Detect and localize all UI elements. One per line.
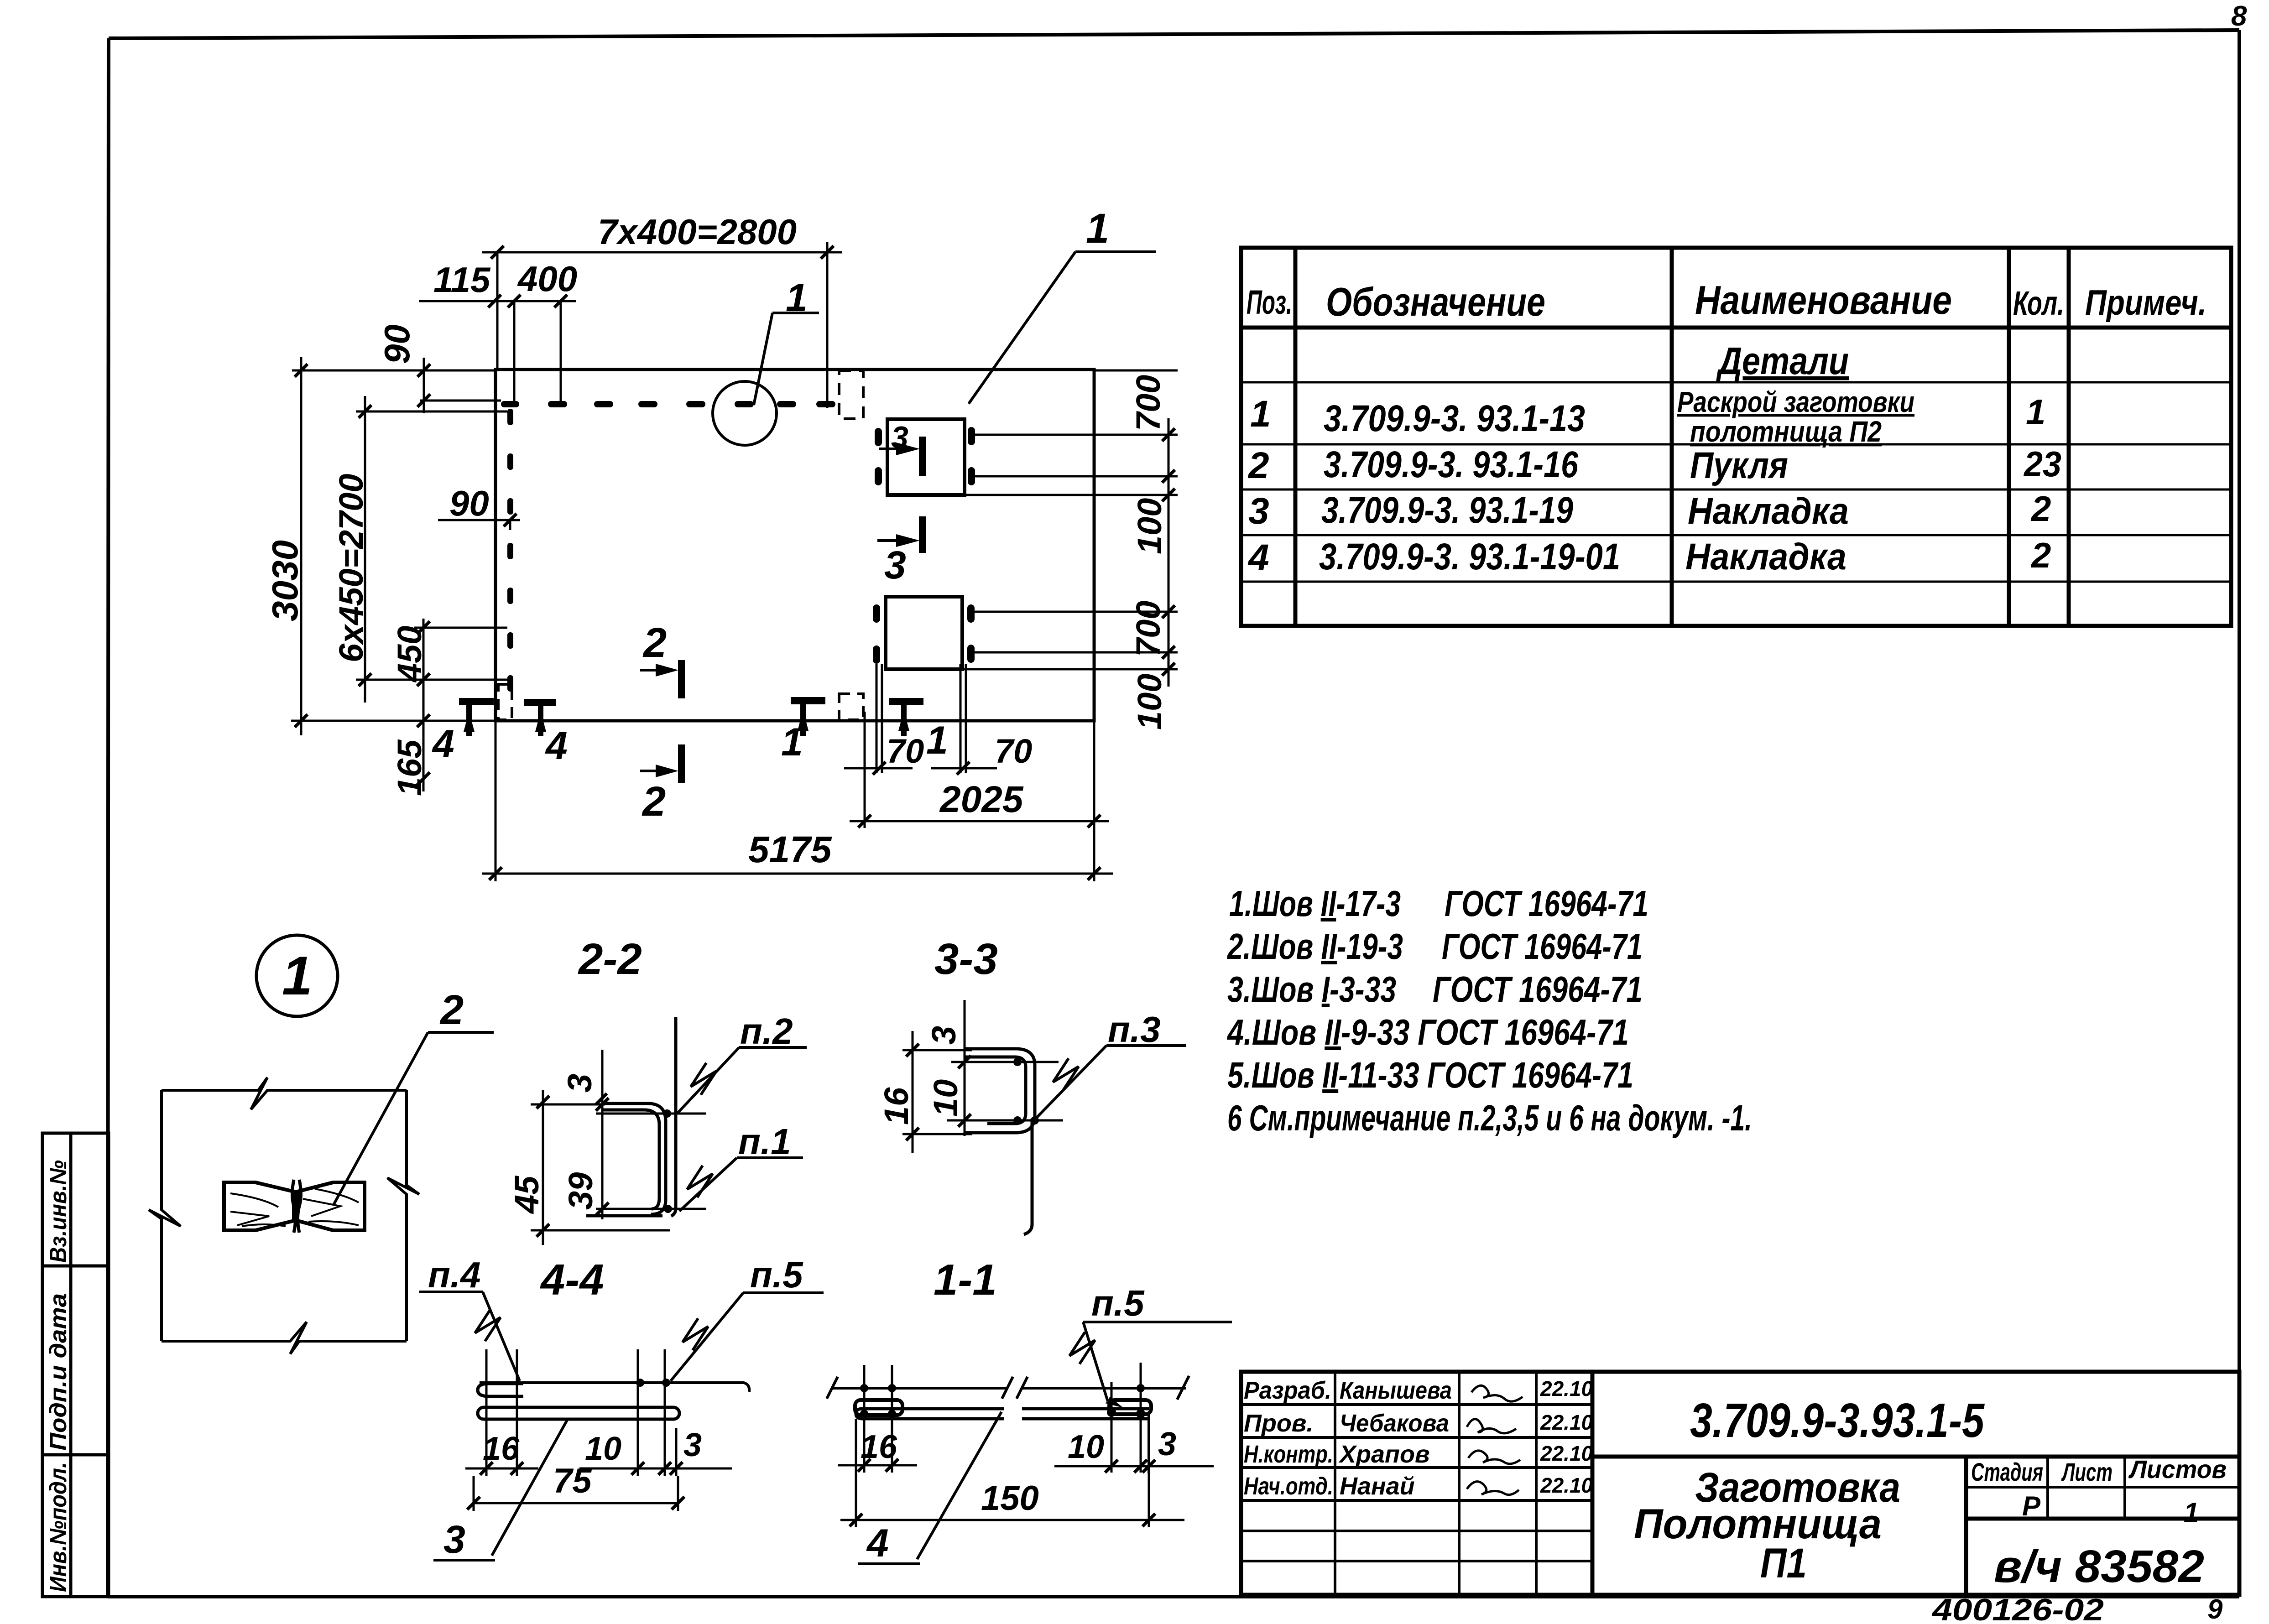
svg-text:Поз.: Поз. [1247, 283, 1292, 321]
svg-text:Инв.№подл.: Инв.№подл. [45, 1462, 72, 1592]
svg-text:39: 39 [562, 1172, 600, 1210]
svg-text:5.Шов II-11-33 ГОСТ 16964-7: 5.Шов II-11-33 ГОСТ 16964-71 [1227, 1055, 1633, 1095]
svg-text:23: 23 [2023, 444, 2061, 484]
svg-text:Пров.: Пров. [1244, 1410, 1313, 1437]
section 3 mark inside upper rect [879, 437, 926, 476]
bent pukla hairpin [586, 1103, 666, 1216]
svg-text:Пукля: Пукля [1690, 445, 1788, 486]
signatures squiggles [1467, 1385, 1523, 1494]
svg-text:4-4: 4-4 [540, 1255, 604, 1304]
svg-text:2: 2 [642, 619, 667, 666]
svg-text:3: 3 [1158, 1426, 1176, 1463]
svg-text:400126-02: 400126-02 [1931, 1593, 2104, 1624]
dashed cut-out box top right [839, 370, 863, 419]
svg-text:1: 1 [1086, 205, 1109, 252]
svg-text:3.709.9-3. 93.1-19: 3.709.9-3. 93.1-19 [1321, 489, 1573, 531]
svg-text:Детали: Детали [1716, 339, 1849, 382]
plate edge vertical line [671, 1017, 676, 1216]
dim slash ticks [295, 246, 1175, 880]
svg-text:1: 1 [2184, 1497, 2199, 1528]
svg-text:п.4: п.4 [428, 1254, 481, 1295]
weld T-mark 4 (second) [524, 699, 556, 736]
svg-text:3.709.9-3.93.1-5: 3.709.9-3.93.1-5 [1690, 1394, 1985, 1447]
1-1 top edge line with breaks [831, 1387, 1186, 1390]
right side dim extensions [1094, 370, 1178, 372]
svg-text:9: 9 [2207, 1594, 2223, 1624]
svg-text:22.10: 22.10 [1540, 1411, 1593, 1434]
svg-text:10: 10 [1068, 1429, 1104, 1465]
svg-text:400: 400 [517, 259, 577, 299]
svg-text:700: 700 [1129, 375, 1167, 431]
svg-text:22.10: 22.10 [1540, 1442, 1593, 1465]
svg-text:1: 1 [2026, 392, 2045, 432]
svg-text:1: 1 [786, 276, 808, 320]
svg-text:в/ч 83582: в/ч 83582 [1994, 1541, 2204, 1592]
dashed cut-out box bottom left [498, 684, 512, 720]
svg-text:7x400=2800: 7x400=2800 [598, 212, 797, 252]
svg-text:Нанай: Нанай [1340, 1473, 1415, 1500]
svg-text:ГОСТ 16964-71: ГОСТ 16964-71 [1445, 883, 1648, 924]
dim 6x450=2700 vertical [364, 396, 366, 703]
svg-text:2: 2 [439, 987, 464, 1033]
svg-text:70: 70 [887, 732, 924, 770]
detail square with break edges [149, 1077, 419, 1354]
90 top extension lines [390, 370, 496, 372]
4-4 lower plate double bar [478, 1407, 679, 1419]
svg-text:22.10: 22.10 [1540, 1377, 1593, 1400]
svg-text:1: 1 [282, 945, 313, 1006]
dim 115 / 400 line [419, 300, 576, 302]
svg-text:115: 115 [433, 260, 491, 300]
svg-text:Примеч.: Примеч. [2085, 282, 2206, 323]
dashed cut-out box bottom middle [839, 694, 863, 720]
svg-text:Р: Р [2022, 1491, 2041, 1521]
dim 450 / 165 vertical [423, 619, 425, 791]
svg-text:Вз.инв.№: Вз.инв.№ [45, 1160, 72, 1263]
svg-text:3.709.9-3. 93.1-19-01: 3.709.9-3. 93.1-19-01 [1319, 536, 1620, 578]
svg-text:П1: П1 [1760, 1540, 1807, 1587]
svg-text:п.1: п.1 [738, 1121, 791, 1162]
svg-text:Листов: Листов [2128, 1455, 2227, 1483]
svg-text:4: 4 [1247, 537, 1269, 578]
section 2 mark upper [640, 669, 674, 671]
dim 3030 vertical [300, 357, 303, 735]
callout п.1 [679, 1158, 803, 1211]
svg-text:2: 2 [642, 778, 666, 825]
position leader 4 [858, 1412, 1001, 1564]
dims of 1-1 [838, 1363, 1214, 1527]
svg-text:4: 4 [432, 722, 454, 766]
svg-text:1: 1 [781, 720, 803, 764]
svg-text:4: 4 [545, 724, 568, 768]
dim 5175 [482, 873, 1113, 875]
svg-text:10: 10 [927, 1079, 965, 1117]
callout п.3 [1036, 1046, 1186, 1119]
svg-text:3: 3 [884, 543, 906, 587]
dims of 3-3 [902, 1000, 1063, 1153]
callout п.2 [677, 1047, 807, 1114]
svg-text:Обозначение: Обозначение [1326, 279, 1545, 324]
lower inner rect (nakladka) [886, 597, 962, 669]
weld T-mark 1 (first) [791, 697, 825, 736]
svg-text:3-3: 3-3 [934, 935, 998, 984]
svg-text:45: 45 [508, 1175, 546, 1214]
svg-text:450: 450 [391, 626, 428, 683]
svg-text:Накладка: Накладка [1688, 490, 1849, 532]
section 3 mark standalone [877, 516, 926, 553]
weld T-mark 1 (second) [889, 698, 923, 736]
svg-text:700: 700 [1129, 601, 1167, 657]
svg-text:1: 1 [1250, 393, 1271, 435]
svg-text:3: 3 [443, 1518, 465, 1562]
svg-text:2025: 2025 [939, 779, 1024, 820]
svg-text:5175: 5175 [748, 829, 832, 870]
svg-text:16: 16 [483, 1431, 520, 1467]
dims of 2-2 [531, 1050, 706, 1245]
svg-text:3: 3 [925, 1026, 963, 1045]
dim 7x400=2800 line [482, 251, 842, 254]
svg-text:2: 2 [2030, 489, 2051, 529]
weld T-mark 4 (first) [459, 698, 494, 736]
left column of pukly dashes [507, 409, 513, 692]
1-1 plate double line left segment [856, 1409, 1149, 1419]
svg-text:Чебакова: Чебакова [1340, 1410, 1449, 1437]
svg-text:Подп.и дата: Подп.и дата [45, 1293, 72, 1451]
svg-text:90: 90 [377, 324, 417, 364]
svg-text:п.3: п.3 [1108, 1009, 1161, 1050]
leader of callout 1 (sheet item) [969, 252, 1156, 404]
svg-text:165: 165 [391, 739, 428, 796]
4-4 top plate edge line [480, 1383, 749, 1392]
svg-text:3: 3 [891, 420, 908, 455]
svg-text:4.Шов II-9-33 ГОСТ 16964-71: 4.Шов II-9-33 ГОСТ 16964-71 [1226, 1012, 1629, 1052]
svg-text:Н.контр.: Н.контр. [1244, 1441, 1333, 1468]
svg-text:Храпов: Храпов [1338, 1441, 1430, 1468]
svg-text:1.Шов II-17-3: 1.Шов II-17-3 [1229, 883, 1401, 924]
svg-text:100: 100 [1131, 674, 1168, 730]
svg-text:2: 2 [2030, 535, 2051, 575]
svg-text:100: 100 [1131, 498, 1168, 554]
svg-text:16: 16 [861, 1429, 897, 1465]
svg-text:8: 8 [2231, 0, 2247, 32]
svg-text:3: 3 [683, 1427, 702, 1463]
svg-text:3: 3 [1248, 490, 1269, 532]
svg-text:2-2: 2-2 [578, 935, 642, 984]
svg-text:Лист: Лист [2061, 1457, 2113, 1486]
svg-text:полотнища П2: полотнища П2 [1690, 415, 1882, 448]
leader 2 to pukla [334, 1032, 494, 1205]
pukla bow-tie plan [224, 1180, 365, 1233]
svg-text:Кол.: Кол. [2013, 284, 2064, 322]
wood grain strokes [230, 1189, 359, 1226]
svg-text:3030: 3030 [265, 540, 305, 621]
svg-text:75: 75 [553, 1462, 592, 1500]
dim 2025 [850, 820, 1109, 822]
callout circle on pukla row [713, 381, 777, 445]
svg-text:3: 3 [561, 1074, 599, 1093]
position leader 3 [433, 1420, 567, 1560]
svg-text:п.2: п.2 [740, 1011, 793, 1051]
1-1 right pukla overlay [1109, 1400, 1151, 1414]
tail line [1024, 1119, 1032, 1234]
pukly marks around lower rect [873, 604, 975, 664]
top row of pukly dashes [501, 401, 835, 407]
svg-text:1-1: 1-1 [934, 1255, 997, 1304]
svg-text:2.Шов II-19-3: 2.Шов II-19-3 [1226, 926, 1403, 967]
svg-text:16: 16 [877, 1087, 915, 1125]
svg-text:3.Шов I-3-33: 3.Шов I-3-33 [1227, 969, 1396, 1010]
upper inner rect (nakladka) [887, 419, 965, 495]
leader of callout 1 (circle) [754, 313, 819, 405]
svg-text:3.709.9-3. 93.1-16: 3.709.9-3. 93.1-16 [1324, 444, 1579, 485]
svg-text:4: 4 [866, 1521, 889, 1565]
svg-text:2: 2 [1247, 445, 1269, 486]
svg-text:150: 150 [981, 1479, 1039, 1518]
svg-text:Нач.отд.: Нач.отд. [1244, 1473, 1333, 1500]
svg-text:70: 70 [995, 732, 1032, 770]
svg-text:Наименование: Наименование [1695, 277, 1952, 323]
left margin stamp column [42, 1133, 109, 1597]
svg-text:90: 90 [449, 483, 489, 523]
svg-text:ГОСТ 16964-71: ГОСТ 16964-71 [1442, 926, 1643, 967]
svg-text:6 См.примечание п.2,3,5 и 6 н: 6 См.примечание п.2,3,5 и 6 на докум. -1… [1227, 1098, 1752, 1138]
bent pukla C-shape [965, 1049, 1035, 1133]
pukly marks around upper rect [875, 427, 975, 485]
svg-text:п.5: п.5 [1091, 1283, 1145, 1323]
blank outline П1 main rectangle [496, 370, 1094, 721]
svg-text:ГОСТ 16964-71: ГОСТ 16964-71 [1433, 969, 1643, 1010]
svg-text:22.10: 22.10 [1540, 1473, 1593, 1497]
svg-text:Накладка: Накладка [1685, 536, 1846, 578]
svg-text:Полотнища: Полотнища [1634, 1501, 1882, 1547]
svg-text:1: 1 [926, 718, 948, 762]
detail bubble 1 [256, 935, 338, 1016]
svg-text:Стадия: Стадия [1971, 1457, 2043, 1486]
svg-text:6х450=2700: 6х450=2700 [332, 474, 370, 662]
svg-text:Канышева: Канышева [1340, 1377, 1452, 1404]
svg-text:3.709.9-3. 93.1-13: 3.709.9-3. 93.1-13 [1324, 398, 1585, 439]
4-4 left pukla bar [478, 1384, 523, 1396]
dims of 4-4 [465, 1349, 732, 1511]
svg-text:Разраб.: Разраб. [1244, 1377, 1331, 1404]
svg-text:п.5: п.5 [750, 1254, 803, 1295]
1-1 left pukla overlay [855, 1400, 902, 1415]
svg-text:Раскрой заготовки: Раскрой заготовки [1677, 385, 1914, 418]
section 2 mark lower [640, 770, 674, 772]
70 dim extension pairs [876, 664, 878, 773]
